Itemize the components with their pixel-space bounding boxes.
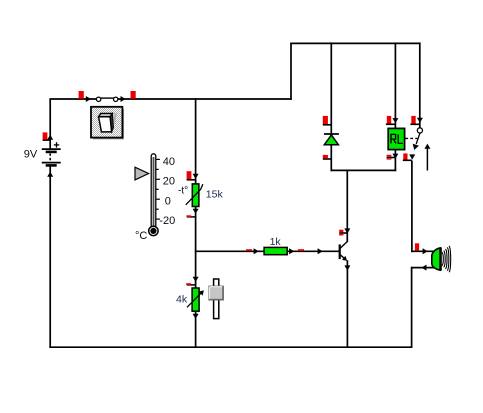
push switch icon box <box>91 107 124 140</box>
svg-text:0: 0 <box>165 195 171 207</box>
current arrow relay top <box>392 118 398 123</box>
svg-text:-t°: -t° <box>178 185 188 196</box>
wire base wire <box>195 250 339 252</box>
svg-text:20: 20 <box>163 176 175 188</box>
current arrow switch top <box>417 118 423 123</box>
current arrow above 4k <box>193 277 199 282</box>
voltage marker top wire right <box>131 91 136 99</box>
current arrow base wire 2 <box>289 248 294 254</box>
voltage marker base wire left <box>246 249 252 251</box>
thermistor TH1 <box>186 184 203 207</box>
relay actuator arrow <box>424 144 430 171</box>
voltage marker collector <box>339 230 347 236</box>
wire thermistor branch <box>195 98 197 348</box>
loudspeaker LS1 <box>432 246 451 272</box>
svg-text:9V: 9V <box>24 149 38 161</box>
voltage marker speaker top <box>415 243 419 250</box>
wire upper rail <box>290 42 420 44</box>
thermometer <box>135 154 160 236</box>
voltage marker diode bottom <box>323 155 332 159</box>
current arrow collector <box>344 228 350 233</box>
voltage marker base wire right <box>298 249 304 251</box>
battery B1 9V <box>42 142 61 165</box>
wire left rail (battery vertical) <box>49 98 51 348</box>
voltage marker top wire left <box>79 91 84 99</box>
voltage marker diode top <box>323 116 332 125</box>
wire relay branch <box>394 42 396 171</box>
transistor Q1 <box>340 241 348 261</box>
wire switch branch top <box>419 42 421 127</box>
wire diode branch <box>330 42 332 171</box>
current arrow battery top <box>47 135 53 140</box>
variable resistor VR1 4k <box>187 288 204 311</box>
current arrow battery bottom <box>47 172 53 177</box>
wire top rail left (battery top to right riser) <box>50 98 292 100</box>
svg-text:40: 40 <box>163 156 175 168</box>
voltage marker 4k top <box>186 283 195 285</box>
voltage marker relay bottom <box>387 155 396 160</box>
svg-text:°C: °C <box>135 230 147 242</box>
current arrow base wire 3 <box>318 248 323 254</box>
current arrow top wire left <box>86 96 91 102</box>
voltage marker battery + <box>43 132 51 140</box>
switch SW1 contacts on top wire <box>96 97 118 101</box>
current arrow switch bottom contact <box>409 154 415 159</box>
diode D1 <box>324 134 339 145</box>
current arrow below thermistor <box>193 209 199 214</box>
voltage marker switch top <box>410 116 419 124</box>
current arrow top wire right <box>121 96 126 102</box>
relay coil RL <box>388 128 417 149</box>
current arrow speaker bottom <box>421 265 426 271</box>
wire collector drop <box>346 170 348 241</box>
svg-text:1k: 1k <box>270 236 282 248</box>
current arrow speaker top <box>423 248 428 254</box>
current arrow emitter <box>344 265 350 270</box>
wire switch branch bottom to speaker loop <box>411 161 434 349</box>
slider control for 4k <box>209 279 224 319</box>
wire right riser to upper rail <box>290 43 292 99</box>
svg-text:-20: -20 <box>159 215 175 227</box>
thermometer pointer <box>135 167 149 180</box>
relay switch SW2 <box>413 128 423 150</box>
current arrow above thermistor <box>193 174 199 179</box>
current arrow relay bottom <box>392 154 398 159</box>
voltage marker thermistor top <box>187 171 196 180</box>
wire bottom rail <box>49 346 411 348</box>
svg-text:4k: 4k <box>176 293 188 305</box>
wire emitter drop <box>346 260 348 348</box>
voltage marker thermistor bottom <box>186 215 195 217</box>
voltage marker switch bottom <box>403 153 412 160</box>
resistor R1 1k <box>264 247 287 254</box>
current arrow base wire 1 <box>254 248 259 254</box>
voltage marker relay top <box>386 116 396 124</box>
current arrow below 4k <box>193 314 199 319</box>
svg-text:15k: 15k <box>206 189 224 201</box>
wire relay sub rail <box>331 169 397 171</box>
